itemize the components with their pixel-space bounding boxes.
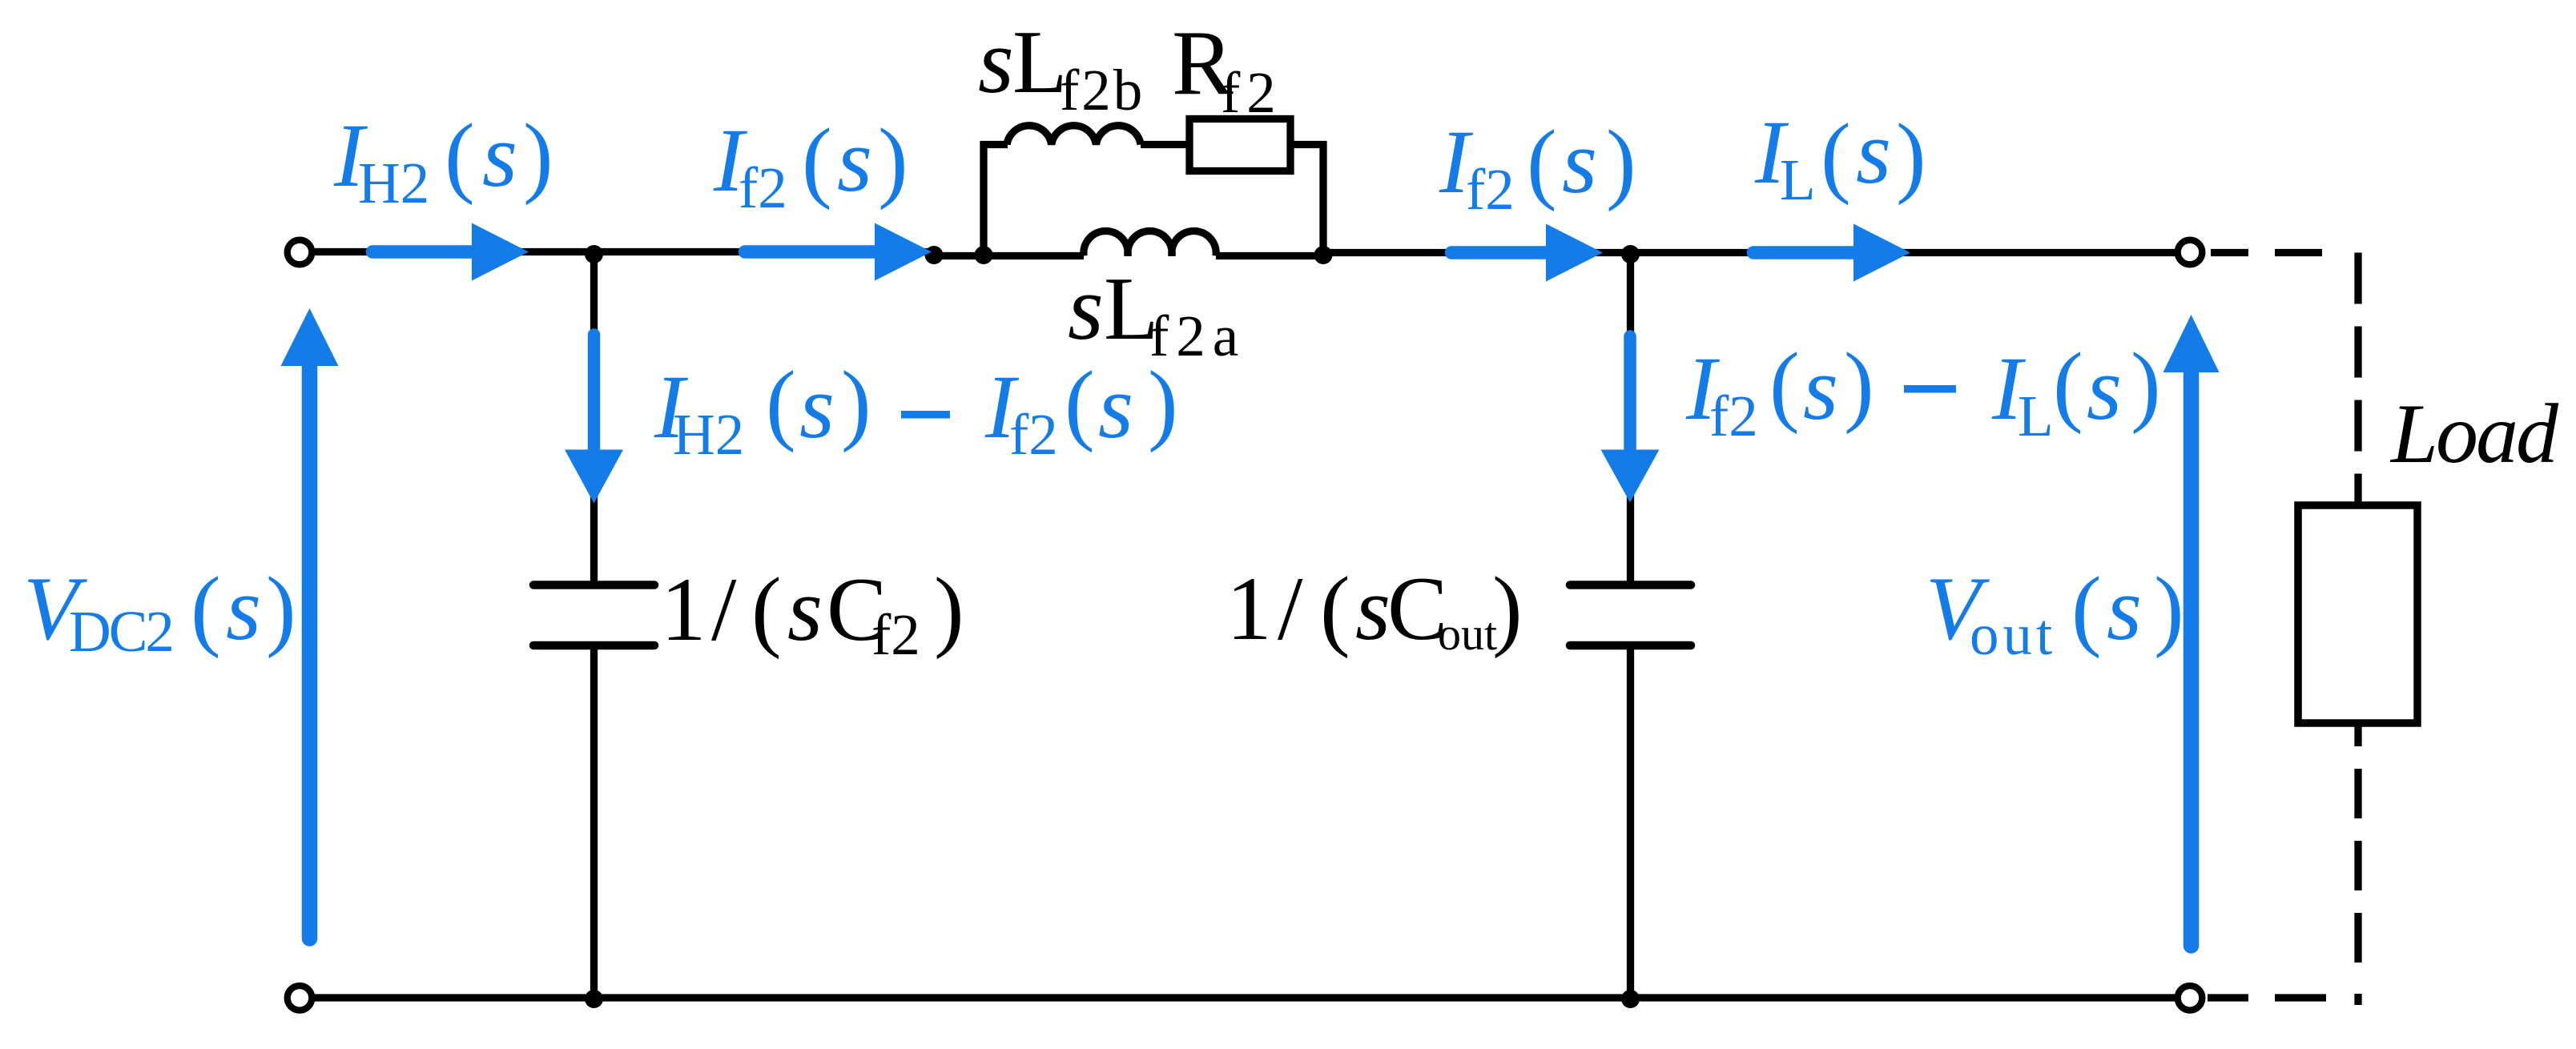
svg-text:/: / [711, 560, 737, 660]
svg-text:s: s [482, 106, 517, 206]
svg-text:f2: f2 [1009, 402, 1058, 467]
current arrow I_f2 minus I_L (down) [1624, 336, 1636, 450]
wire left riser of damping branch [980, 141, 987, 258]
node junction dot G (C_out bottom) [1621, 990, 1640, 1008]
voltage arrow V_out (up) [2184, 372, 2200, 946]
svg-text:f2: f2 [1466, 157, 1515, 222]
svg-text:out: out [1970, 602, 2056, 667]
svg-text:1: 1 [1226, 559, 1272, 659]
svg-text:DC2: DC2 [69, 599, 172, 664]
svg-text:): ) [1492, 559, 1523, 659]
terminal top-left [288, 240, 312, 265]
svg-text:s: s [1098, 357, 1133, 457]
svg-text:/: / [1278, 559, 1303, 659]
label sL_f2b [978, 10, 1145, 123]
node junction dot D (damping right) [1314, 246, 1333, 264]
svg-text:s: s [1068, 257, 1104, 359]
node junction dot A (C_f2 top) [585, 245, 603, 263]
label I_L(s) [1754, 102, 1926, 212]
svg-text:(: ( [1821, 106, 1851, 206]
wire top rail middle-right segment [1216, 252, 1326, 259]
svg-text:s: s [2087, 339, 2122, 439]
capacitor C_out top plate [1570, 581, 1691, 589]
label I_f2(s) minus I_L(s) [1685, 335, 2161, 448]
svg-text:s: s [799, 357, 835, 457]
svg-text:(: ( [1527, 112, 1557, 212]
svg-text:s: s [1562, 112, 1597, 212]
svg-text:): ) [1606, 112, 1636, 212]
label I_H2(s) minus I_f2(s) [654, 353, 1178, 467]
svg-text:): ) [2154, 559, 2184, 659]
inductor sL_f2a [1084, 231, 1216, 255]
svg-text:f2: f2 [1709, 384, 1758, 448]
wire right riser of damping branch [1319, 141, 1326, 258]
label I_H2(s) [333, 106, 553, 215]
voltage arrow V_DC2 (up) [302, 366, 318, 938]
current arrow I_H2 [372, 245, 473, 259]
svg-text:s: s [837, 111, 872, 211]
capacitor C_out bottom plate [1570, 641, 1691, 650]
svg-text:s: s [1856, 102, 1891, 203]
wire top branch left segment [980, 141, 1008, 148]
dashed wire top horizontal to load [2211, 249, 2358, 256]
svg-text:L: L [1780, 147, 1816, 212]
svg-text:(: ( [1065, 353, 1095, 453]
node junction dot B (arrow2 tip) [925, 246, 944, 264]
label V_DC2(s) [23, 559, 296, 664]
current arrow I_f2 left [745, 245, 875, 259]
wire C_f2 branch lower [590, 645, 598, 998]
svg-text:s: s [1803, 339, 1838, 439]
label R_f2 [1172, 12, 1282, 125]
svg-text:out: out [1438, 608, 1497, 660]
dashed wire load vertical lower [2354, 723, 2361, 1005]
svg-text:(: ( [1320, 559, 1350, 659]
wire C_out branch upper [1627, 253, 1634, 586]
svg-text:s: s [1355, 559, 1391, 659]
svg-text:(: ( [1769, 335, 1800, 435]
node junction dot C (damping left) [975, 246, 993, 264]
svg-text:): ) [934, 560, 964, 660]
label I_f2(s) right [1439, 112, 1636, 222]
node junction dot E (C_out top) [1621, 245, 1640, 263]
dashed wire load vertical upper [2354, 253, 2361, 506]
wire C_f2 branch upper [590, 252, 598, 586]
label sL_f2a [1068, 257, 1246, 368]
svg-text:(: ( [191, 559, 221, 659]
svg-text:(: ( [445, 106, 475, 206]
current arrow I_H2 minus I_f2 (down) [588, 335, 601, 450]
label 1/(sC_out) [1226, 559, 1523, 660]
current arrow I_f2 right [1451, 246, 1546, 259]
wire top branch middle segment [1141, 141, 1189, 148]
svg-text:(: ( [2053, 335, 2083, 435]
node junction dot F (C_f2 bottom) [585, 990, 603, 1008]
svg-text:1: 1 [661, 560, 706, 660]
svg-text:): ) [266, 559, 296, 659]
resistor R_f2 [1189, 119, 1290, 171]
svg-text:f2: f2 [1221, 60, 1282, 125]
svg-text:f2: f2 [739, 155, 787, 220]
svg-text:): ) [841, 353, 871, 453]
wire top rail right segment [1321, 249, 2180, 256]
svg-text:s: s [978, 10, 1014, 112]
svg-text:(: ( [751, 560, 782, 660]
svg-text:L: L [2018, 384, 2054, 448]
capacitor C_f2 bottom plate [533, 641, 654, 650]
label I_f2(s) left [713, 111, 908, 220]
svg-text:s: s [787, 560, 823, 660]
terminal top-right [2178, 240, 2203, 265]
svg-text:f2a: f2a [1149, 303, 1246, 368]
svg-text:): ) [2131, 335, 2161, 435]
svg-text:): ) [523, 106, 553, 206]
wire top branch right segment [1290, 141, 1327, 148]
svg-text:(: ( [802, 111, 832, 211]
terminal bottom-right [2178, 986, 2203, 1011]
svg-text:f2b: f2b [1060, 58, 1145, 123]
wire C_out branch lower [1627, 645, 1634, 998]
svg-text:s: s [2107, 559, 2142, 659]
svg-text:): ) [1844, 335, 1874, 435]
wire bottom rail [313, 994, 2180, 1001]
svg-text:H2: H2 [358, 151, 429, 215]
svg-text:H2: H2 [673, 402, 744, 467]
svg-text:): ) [1896, 106, 1926, 206]
current arrow I_L [1753, 246, 1854, 259]
svg-text:): ) [878, 111, 908, 211]
capacitor C_f2 top plate [533, 581, 654, 589]
svg-text:(: ( [2071, 559, 2102, 659]
load resistor box [2298, 505, 2417, 723]
svg-text:(: ( [766, 353, 796, 453]
wire top rail middle-left segment [932, 252, 1084, 259]
wire top rail left segment [313, 248, 937, 255]
dashed wire bottom horizontal to terminal [2208, 994, 2358, 1001]
label V_out(s) [1926, 559, 2184, 667]
svg-text:Load: Load [2389, 387, 2559, 480]
svg-text:s: s [226, 559, 261, 659]
terminal bottom-left [288, 986, 312, 1011]
label 1/(sC_f2) [661, 560, 964, 667]
inductor sL_f2b [1007, 126, 1141, 145]
svg-text:f2: f2 [871, 602, 920, 667]
